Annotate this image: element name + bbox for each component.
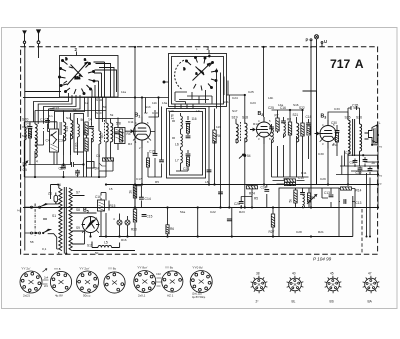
- svg-text:R16: R16: [121, 238, 127, 242]
- capacitor: [329, 195, 334, 197]
- extra left-cluster wiring: [29, 122, 114, 177]
- svg-text:C19: C19: [168, 109, 174, 113]
- svg-text:-o: -o: [379, 182, 382, 186]
- svg-text:C23: C23: [250, 101, 256, 105]
- resistor: [133, 185, 136, 198]
- power transformer: [43, 185, 85, 254]
- resistor: [301, 123, 304, 136]
- resistor: [133, 209, 136, 222]
- svg-text:Z1: Z1: [48, 192, 52, 196]
- coil: [24, 127, 26, 140]
- capacitor: [368, 169, 373, 171]
- capacitor: [207, 170, 212, 172]
- svg-text:S6: S6: [57, 183, 61, 187]
- svg-text:BL: BL: [292, 300, 296, 304]
- nested wires below switch1: [23, 93, 106, 130]
- svg-text:2x0,1: 2x0,1: [138, 294, 146, 298]
- svg-text:510: 510: [65, 126, 69, 132]
- svg-text:C27: C27: [283, 177, 289, 181]
- svg-text:11a: 11a: [121, 90, 126, 94]
- capacitor: [269, 127, 274, 129]
- svg-text:S16: S16: [293, 103, 299, 107]
- svg-text:5/8: 5/8: [116, 122, 121, 126]
- svg-text:L6: L6: [175, 143, 179, 147]
- S9/S11 bottom taps: [75, 231, 85, 251]
- horizontal resistor to chassis row: [103, 158, 114, 161]
- svg-text:'YY 2o': 'YY 2o': [21, 267, 31, 271]
- socket c: [77, 271, 99, 293]
- antenna feed wires: [25, 47, 61, 251]
- socket g: [190, 271, 212, 293]
- svg-text:C25: C25: [268, 106, 274, 110]
- fuse Z1: [54, 193, 59, 204]
- resistor: [28, 129, 31, 138]
- svg-text:13a: 13a: [162, 101, 167, 105]
- svg-text:L5: L5: [104, 241, 108, 245]
- resistor: [166, 225, 169, 234]
- resistor: [307, 126, 310, 135]
- svg-text:L9: L9: [196, 109, 200, 113]
- coil: [181, 150, 183, 163]
- coil L1: [35, 124, 37, 143]
- svg-text:4µ 8V: 4µ 8V: [55, 294, 63, 298]
- coil: [92, 129, 94, 142]
- mixer grid components row y164-171: [64, 162, 95, 178]
- svg-text:2: 2: [17, 210, 21, 212]
- svg-text:R11: R11: [301, 171, 307, 175]
- svg-text:50: 50: [103, 105, 107, 109]
- svg-text:2x(2): 2x(2): [23, 294, 30, 298]
- coil: [111, 123, 113, 142]
- capacitor: [281, 121, 286, 123]
- capacitor: [50, 109, 55, 111]
- svg-text:C3: C3: [59, 139, 63, 143]
- svg-text:C30: C30: [318, 152, 324, 156]
- svg-text:C15: C15: [149, 150, 155, 154]
- socket f: [162, 271, 183, 292]
- svg-text:180: 180: [83, 130, 87, 136]
- svg-text:18a: 18a: [75, 76, 81, 80]
- resistor: [119, 129, 122, 142]
- svg-text:+o: +o: [379, 145, 383, 149]
- svg-text:S19: S19: [232, 116, 238, 120]
- svg-text:1n: 1n: [49, 114, 53, 118]
- svg-text:R9: R9: [311, 196, 315, 200]
- svg-text:11b: 11b: [152, 101, 157, 105]
- capacitor: [264, 190, 269, 192]
- svg-text:38: 38: [256, 272, 260, 276]
- right output cluster detail: [336, 151, 378, 175]
- B1 vertical feed/plate wires: [23, 47, 169, 208]
- rectifier tube B5: [82, 213, 100, 237]
- resistor: [307, 193, 310, 202]
- svg-text:'YY0 8o': 'YY0 8o': [192, 266, 203, 270]
- padder box with resistor: [115, 128, 126, 144]
- svg-text:'YY 2or': 'YY 2or': [79, 267, 90, 271]
- svg-text:YY 8o: YY 8o: [165, 266, 173, 270]
- svg-text:R5: R5: [254, 197, 258, 201]
- capacitor: [306, 123, 311, 125]
- top-band extra labels + C22 cap: [152, 101, 299, 113]
- svg-text:C35: C35: [352, 104, 358, 108]
- coil: [236, 124, 238, 143]
- svg-text:(2x0,1µ): (2x0,1µ): [192, 292, 202, 296]
- volume pot wiper: [239, 154, 246, 208]
- svg-text:C11: C11: [128, 120, 134, 124]
- svg-text:116: 116: [192, 117, 197, 121]
- svg-text:0,1: 0,1: [42, 247, 47, 251]
- svg-text:C1: C1: [40, 118, 44, 122]
- svg-text:R14: R14: [356, 189, 362, 193]
- svg-text:C36: C36: [345, 151, 351, 155]
- tube pin numbers + extra hatch detail: [84, 48, 335, 235]
- svg-text:S4: S4: [66, 116, 70, 120]
- resistor: [288, 122, 291, 135]
- svg-text:14b: 14b: [268, 96, 273, 100]
- svg-text:717 A: 717 A: [330, 57, 364, 71]
- capacitor: [218, 192, 223, 194]
- coil: [106, 123, 108, 142]
- svg-text:C17: C17: [136, 177, 142, 181]
- antenna 2: [37, 30, 41, 47]
- svg-text:C22: C22: [210, 210, 216, 214]
- svg-text:R15: R15: [110, 204, 116, 208]
- svg-text:C13: C13: [324, 191, 330, 195]
- right edge vertical + taps: [348, 125, 378, 208]
- capacitor: [239, 202, 244, 204]
- svg-text:2k: 2k: [372, 161, 376, 165]
- scale lamps: [117, 214, 130, 237]
- svg-text:C8: C8: [96, 154, 100, 158]
- resistor: [294, 190, 297, 203]
- capacitor: [363, 160, 368, 162]
- svg-text:S9: S9: [76, 226, 80, 230]
- svg-text:12: 12: [85, 101, 89, 105]
- svg-text:54a: 54a: [180, 210, 185, 214]
- capacitor: [353, 161, 358, 163]
- svg-text:58: 58: [30, 240, 34, 244]
- svg-text:R20: R20: [131, 228, 137, 232]
- svg-text:15: 15: [109, 187, 113, 191]
- svg-text:C25: C25: [248, 90, 254, 94]
- capacitor: [139, 197, 144, 199]
- svg-text:S10: S10: [96, 111, 102, 115]
- svg-text:50c µ: 50c µ: [83, 294, 91, 298]
- resistor: [335, 133, 338, 142]
- svg-text:S1: S1: [52, 214, 56, 218]
- svg-text:R4: R4: [217, 134, 221, 138]
- svg-text:YY 8o: YY 8o: [108, 267, 116, 271]
- svg-text:14a: 14a: [278, 103, 283, 107]
- svg-text:BS: BS: [330, 300, 334, 304]
- tube B2: [250, 117, 272, 144]
- svg-text:R8: R8: [287, 118, 291, 122]
- coil: [297, 123, 299, 142]
- svg-text:47: 47: [368, 272, 372, 276]
- svg-text:C26: C26: [234, 202, 240, 206]
- left border stub wires: [23, 207, 376, 255]
- svg-text:P: P: [306, 38, 309, 43]
- capacitor: [153, 154, 158, 156]
- svg-text:S7: S7: [76, 191, 80, 195]
- svg-text:C4: C4: [46, 139, 50, 143]
- svg-text:C33: C33: [334, 107, 340, 111]
- svg-text:YY 8: YY 8: [54, 267, 61, 271]
- svg-text:S1b: S1b: [223, 100, 229, 104]
- svg-text:R21: R21: [318, 230, 324, 234]
- svg-text:54: 54: [247, 154, 251, 158]
- svg-text:2x4: 2x4: [44, 276, 49, 280]
- resistor: [186, 124, 189, 133]
- resistor: [186, 157, 189, 166]
- svg-text:5k: 5k: [289, 199, 293, 203]
- svg-text:R24: R24: [249, 192, 255, 196]
- svg-text:C13: C13: [356, 201, 362, 205]
- svg-text:P 104 99: P 104 99: [313, 257, 332, 262]
- coil L2 with slug: [64, 122, 66, 141]
- svg-text:176: 176: [171, 114, 175, 120]
- svg-text:R23: R23: [239, 210, 245, 214]
- B2 stage components column: [272, 110, 309, 177]
- svg-text:C34: C34: [261, 186, 267, 190]
- coil: [245, 123, 247, 142]
- capacitor: [75, 171, 80, 173]
- coil: [99, 131, 101, 144]
- switch2 internal wires: [163, 69, 228, 109]
- svg-text:56: 56: [81, 118, 85, 122]
- svg-text:S21: S21: [293, 113, 299, 117]
- svg-text:S11: S11: [87, 244, 93, 248]
- tube B1 (mixer): [125, 117, 151, 149]
- capacitor: [115, 132, 120, 134]
- svg-text:R5: R5: [155, 180, 159, 184]
- resistor: [146, 158, 149, 167]
- svg-text:C24: C24: [232, 96, 238, 100]
- svg-text:R27: R27: [269, 230, 275, 234]
- svg-text:C2: C2: [144, 111, 148, 115]
- osc coil can: [74, 114, 84, 153]
- tube pin stubs: [82, 135, 336, 233]
- svg-text:1µ2: 1µ2: [100, 133, 104, 139]
- svg-text:C39: C39: [356, 171, 362, 175]
- svg-text:116: 116: [216, 125, 221, 129]
- svg-text:C15: C15: [147, 215, 153, 219]
- capacitor: [344, 199, 346, 204]
- socket b: [50, 271, 71, 292]
- svg-text:C10: C10: [152, 111, 158, 115]
- svg-text:L: L: [379, 121, 381, 125]
- svg-text:L8: L8: [205, 180, 209, 184]
- capacitor: [335, 131, 340, 133]
- resistor: [276, 118, 279, 131]
- svg-text:+o: +o: [379, 174, 383, 178]
- coil: [284, 124, 286, 137]
- capacitor: [227, 219, 232, 221]
- svg-text:5k: 5k: [110, 113, 114, 117]
- svg-text:C14: C14: [145, 197, 151, 201]
- svg-text:S13: S13: [145, 105, 151, 109]
- svg-text:C21: C21: [183, 167, 189, 171]
- coil: [303, 195, 305, 208]
- capacitor: [186, 154, 191, 156]
- svg-text:C28: C28: [296, 230, 302, 234]
- socket e: [134, 271, 156, 293]
- capacitor: [89, 127, 94, 129]
- svg-text:b: b: [184, 67, 186, 71]
- capacitor: [45, 121, 50, 123]
- svg-text:U: U: [324, 39, 327, 44]
- svg-text:1110: 1110: [75, 142, 79, 149]
- svg-text:S18: S18: [242, 116, 248, 120]
- svg-text:C13: C13: [22, 125, 28, 129]
- resistor column labels x84-86: [85, 122, 88, 135]
- svg-text:R6: R6: [170, 227, 174, 231]
- tuning gang box: [50, 129, 59, 165]
- choke L5: [92, 242, 120, 248]
- terminal earth: [314, 35, 318, 47]
- coil: [35, 139, 37, 158]
- socket a: [20, 271, 42, 293]
- resistor: [341, 187, 352, 190]
- svg-text:40: 40: [292, 272, 296, 276]
- smoothing C16/R15: [98, 193, 110, 238]
- svg-text:50: 50: [95, 251, 99, 255]
- scattered value labels: [22, 90, 340, 251]
- resistor: [247, 186, 258, 189]
- svg-text:a: a: [84, 58, 86, 62]
- coil S5: [71, 120, 73, 139]
- svg-text:S8: S8: [76, 208, 80, 212]
- dashed chassis partition: [361, 209, 363, 254]
- resistor: [85, 138, 88, 151]
- output secondary leads down: [339, 173, 370, 237]
- capacitor: [358, 168, 363, 170]
- svg-text:R3: R3: [128, 142, 132, 146]
- svg-text:b: b: [66, 57, 68, 61]
- svg-text:S17: S17: [232, 109, 238, 113]
- svg-text:56: 56: [73, 108, 77, 112]
- tube B3 output: [315, 120, 337, 149]
- svg-text:1µ0: 1µ0: [28, 129, 32, 135]
- capacitor: [28, 127, 33, 129]
- mains switch S1 (two poles): [25, 202, 59, 249]
- svg-text:2ˣˑ: 2ˣˑ: [256, 300, 260, 304]
- svg-text:AZ 1: AZ 1: [167, 294, 174, 298]
- coil: [181, 116, 183, 129]
- svg-text:520: 520: [22, 134, 27, 138]
- capacitor: [142, 215, 147, 217]
- resistor: [213, 130, 216, 143]
- svg-text:a: a: [196, 72, 198, 76]
- svg-text:45: 45: [330, 272, 334, 276]
- capacitor: [186, 136, 191, 138]
- socket row small labels: [21, 266, 206, 300]
- speaker: [365, 125, 378, 144]
- svg-text:R7: R7: [275, 114, 279, 118]
- svg-text:C16: C16: [95, 195, 101, 199]
- svg-text:2k: 2k: [129, 190, 133, 194]
- antenna 1: [23, 31, 26, 47]
- svg-text:S20: S20: [22, 117, 28, 121]
- P feed verticals: [303, 47, 317, 208]
- capacitor: [61, 166, 66, 168]
- switch box: [60, 52, 119, 98]
- svg-text:'YY 8or': 'YY 8or': [137, 266, 148, 270]
- svg-text:530: 530: [60, 167, 66, 171]
- IF can (nested): [167, 109, 206, 179]
- resistor: [285, 182, 296, 185]
- schematic dashed border: [21, 47, 378, 254]
- svg-text:4: 4: [36, 160, 38, 164]
- svg-text:C29: C29: [320, 177, 326, 181]
- socket d: [104, 272, 125, 293]
- resistor: [285, 179, 296, 182]
- svg-text:C10: C10: [298, 176, 304, 180]
- junction dots on buses: [34, 94, 379, 238]
- rotary switch 2: [175, 54, 218, 91]
- svg-text:C38: C38: [350, 161, 356, 165]
- capacitor: [300, 193, 305, 195]
- svg-text:5N: 5N: [95, 167, 100, 171]
- svg-text:14: 14: [88, 118, 92, 122]
- svg-text:C32: C32: [156, 272, 161, 276]
- capacitor: [159, 160, 164, 162]
- coil: [181, 134, 183, 147]
- capacitor: [186, 122, 191, 124]
- wires inside switch box to right: [91, 62, 117, 97]
- svg-text:2r4: 2r4: [44, 284, 48, 288]
- coil: [78, 124, 80, 137]
- svg-text:L7: L7: [175, 159, 179, 163]
- resistor: [271, 214, 274, 227]
- svg-text:4µ 8V 50cµ: 4µ 8V 50cµ: [192, 295, 206, 299]
- rotary switch contacts: [59, 57, 96, 95]
- svg-text:R4: R4: [127, 132, 131, 136]
- coil: [272, 130, 274, 143]
- 2nd IF transformer S19/S18: [236, 119, 245, 155]
- can content: L6/C21 top, L7/C20 bottom: [172, 113, 188, 171]
